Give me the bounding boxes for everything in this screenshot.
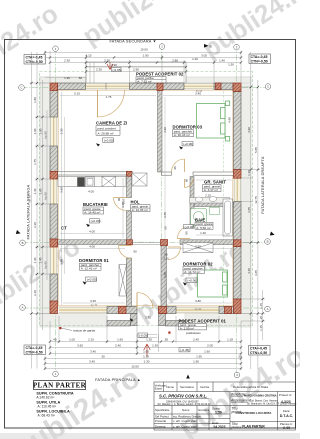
- svg-text:.60: .60: [78, 76, 83, 80]
- axis B horizontal: [23, 242, 271, 244]
- svg-text:D.T.A.C.: D.T.A.C.: [280, 414, 294, 418]
- wall V5 dormitor01/hol: [127, 258, 132, 307]
- svg-text:2.88: 2.88: [172, 58, 178, 62]
- svg-text:3.60: 3.60: [77, 343, 83, 347]
- svg-text:CTN=-0,50: CTN=-0,50: [251, 59, 268, 63]
- col interior H3 axis2: [161, 240, 168, 246]
- svg-text:2.50: 2.50: [133, 67, 139, 71]
- label bucatarie: [83, 202, 108, 223]
- window right: gr sanit: [234, 178, 242, 202]
- svg-text:pard. parchet: pard. parchet: [98, 127, 116, 131]
- svg-text:Expert: Expert: [155, 388, 163, 391]
- door dormitor 02: [168, 247, 181, 260]
- top wall segment B: [130, 83, 185, 90]
- svg-text:PLAN PARTER: PLAN PARTER: [33, 382, 87, 390]
- svg-text:trotuar de garda: trotuar de garda: [73, 329, 95, 333]
- svg-text:2.90: 2.90: [111, 63, 117, 67]
- extension horizontals: [30, 82, 51, 84]
- col right wall mid2: [234, 240, 242, 247]
- bottom wall seg 3: [219, 307, 234, 314]
- hall wardrobe: [132, 173, 147, 186]
- svg-text:C: C: [20, 86, 22, 90]
- label podest acoperit 01: [179, 319, 227, 335]
- svg-text:Semnatura: Semnatura: [180, 385, 194, 389]
- svg-text:4.00: 4.00: [88, 190, 94, 194]
- svg-text:4.15: 4.15: [86, 54, 92, 58]
- label baie: [195, 217, 213, 230]
- wall camera/bucatarie H1 thin partition: [58, 172, 127, 175]
- svg-text:plansa:: plansa:: [231, 426, 242, 430]
- col top mid-right: [216, 83, 222, 90]
- svg-text:12.75: 12.75: [254, 196, 258, 204]
- svg-text:3.48: 3.48: [59, 259, 63, 265]
- roof ridge dashed line: [223, 83, 225, 313]
- extension verticals: [49, 51, 51, 84]
- svg-text:Jud. Brasov, Com. Harman,: Jud. Brasov, Com. Harman,: [250, 400, 279, 403]
- svg-text:3.65: 3.65: [247, 207, 251, 213]
- svg-text:hp 90: hp 90: [44, 261, 48, 269]
- svg-text:4.90: 4.90: [163, 127, 167, 133]
- left wall seg 3: [50, 204, 58, 239]
- svg-text:1:50: 1:50: [215, 411, 222, 415]
- svg-text:4.90: 4.90: [228, 117, 232, 123]
- svg-text:3.65: 3.65: [163, 212, 167, 218]
- bottom grey scan strip: [0, 433, 300, 439]
- door main entrance french (top): [98, 90, 125, 117]
- window left: bucatarie: [50, 179, 58, 204]
- svg-text:10.50: 10.50: [131, 364, 139, 368]
- level -0.45 box bottom: [179, 348, 190, 352]
- svg-text:1.90: 1.90: [193, 359, 199, 363]
- door baie: [178, 226, 191, 239]
- svg-text:1.30: 1.30: [200, 231, 206, 235]
- svg-text:hp 90: hp 90: [195, 307, 202, 311]
- col left wall mid1: [50, 171, 58, 179]
- horizontal row lines: [154, 391, 296, 393]
- window left: camera de zi: [50, 117, 58, 146]
- svg-text:90: 90: [117, 198, 121, 202]
- cta box bottom-right: [249, 346, 271, 356]
- svg-text:CTN=-0,50: CTN=-0,50: [26, 60, 43, 64]
- wall V2 camera/dormitor03: [158, 90, 163, 173]
- kitchen sink unit: [86, 177, 95, 187]
- col left wall mid2: [50, 239, 58, 247]
- door bucatarie: [114, 198, 127, 211]
- svg-text:2.10: 2.10: [122, 198, 126, 204]
- svg-text:4.00: 4.00: [89, 230, 95, 234]
- svg-text:Sef Proiect: Sef Proiect: [155, 414, 169, 418]
- level cursor arrows: [83, 143, 187, 322]
- svg-text:1.90: 1.90: [33, 128, 37, 134]
- svg-text:2.10: 2.10: [163, 257, 169, 261]
- vertical column lines header: [163, 382, 165, 392]
- svg-text:(+0.00): (+0.00): [183, 142, 193, 146]
- svg-text:A: 3.47 m²: A: 3.47 m²: [204, 188, 218, 192]
- axis 2 vertical: [161, 44, 163, 250]
- dormitor03 bed green: [197, 101, 230, 141]
- porch side walls (hatched): [131, 314, 138, 326]
- window bottom: dormitor 01: [59, 307, 107, 314]
- wall V1 lower: [127, 211, 132, 240]
- vertical column lines lower: [171, 406, 173, 431]
- trotuar de garda leader: [59, 327, 61, 329]
- cta box bottom-left: [24, 345, 46, 355]
- label gr sanit: [203, 180, 227, 193]
- svg-text:3.65: 3.65: [254, 270, 258, 276]
- svg-text:A: 12.43 m²: A: 12.43 m²: [81, 267, 97, 271]
- wall H3 right part: [180, 240, 234, 245]
- svg-text:3.55: 3.55: [195, 245, 201, 249]
- svg-text:1.75: 1.75: [33, 159, 37, 165]
- left wall seg 1: [50, 90, 58, 118]
- svg-text:1.90: 1.90: [143, 54, 149, 58]
- svg-text:A: 14.40 m²: A: 14.40 m²: [84, 211, 100, 215]
- svg-text:A: A: [267, 307, 269, 311]
- axis A horizontal: [23, 307, 271, 309]
- svg-text:A: 5.50 m²: A: 5.50 m²: [196, 226, 210, 230]
- wall dormitor03 bottom H2 thin partition segs: [162, 172, 172, 175]
- svg-text:c. arh. Cuprin Vasil: c. arh. Cuprin Vasil: [173, 419, 197, 423]
- svg-text:CT: CT: [61, 226, 67, 231]
- svg-text:hp 90: hp 90: [44, 192, 48, 200]
- door gr sanit: [185, 179, 194, 188]
- svg-text:90: 90: [173, 166, 177, 170]
- svg-text:2.45: 2.45: [193, 337, 199, 341]
- svg-text:10.50: 10.50: [140, 48, 148, 52]
- svg-text:3.60: 3.60: [59, 187, 63, 193]
- svg-text:1.80: 1.80: [33, 97, 37, 103]
- col bottom wall 2: [159, 307, 167, 314]
- axis 3 vertical: [236, 44, 238, 375]
- col top-right corner: [233, 83, 241, 92]
- svg-text:ing. Raddescu Dragos: ing. Raddescu Dragos: [173, 414, 201, 418]
- svg-text:.20: .20: [259, 316, 263, 321]
- col top-left corner: [50, 83, 58, 91]
- svg-text:1.40: 1.40: [219, 58, 225, 62]
- entrance arrow top porch: [107, 62, 113, 70]
- window left: dormitor 01: [50, 247, 58, 274]
- svg-text:A:140.62 m²: A:140.62 m²: [36, 395, 55, 399]
- window top: dormitor 03: [184, 83, 214, 90]
- svg-text:3.30: 3.30: [59, 128, 63, 134]
- bottom wall seg 1: [107, 307, 137, 314]
- svg-text:1.15: 1.15: [259, 325, 263, 331]
- svg-text:S.C. PROFIV CON S.R.L.: S.C. PROFIV CON S.R.L.: [159, 394, 207, 399]
- svg-text:1.75: 1.75: [106, 95, 112, 99]
- svg-text:1.40: 1.40: [33, 257, 37, 263]
- door leaf dimension texts: [88, 166, 188, 319]
- svg-text:1.30: 1.30: [143, 354, 149, 358]
- label hol: [131, 199, 195, 229]
- left wall seg 4: [50, 274, 58, 303]
- door dormitor 03: [172, 159, 185, 172]
- svg-text:A: 29.88 m²: A: 29.88 m²: [98, 131, 114, 135]
- svg-text:c. arh. Cuprin Vasil: c. arh. Cuprin Vasil: [173, 424, 197, 428]
- svg-text:30: 30: [101, 354, 105, 358]
- svg-text:A-00: A-00: [283, 426, 290, 430]
- axis 1 vertical: [55, 46, 57, 374]
- svg-text:3.45: 3.45: [90, 299, 96, 303]
- svg-text:1.30: 1.30: [247, 170, 251, 176]
- svg-text:80: 80: [185, 231, 189, 235]
- svg-text:B: B: [210, 45, 212, 49]
- svg-text:B: B: [22, 241, 24, 245]
- label dormitor 03: [173, 125, 203, 147]
- svg-text:Semnatura: Semnatura: [198, 409, 210, 412]
- svg-text:4.00: 4.00: [89, 245, 95, 249]
- svg-text:4.40: 4.40: [247, 268, 251, 274]
- svg-text:.48: .48: [52, 337, 57, 341]
- svg-text:Nume: Nume: [182, 408, 190, 412]
- svg-text:1.40: 1.40: [33, 188, 37, 194]
- svg-text:MARCU SABINA CRISTINA: MARCU SABINA CRISTINA: [244, 394, 277, 398]
- svg-text:(+0.00): (+0.00): [91, 219, 101, 223]
- svg-text:2.30: 2.30: [96, 67, 102, 71]
- roof eave outline (green dashed): [40, 72, 253, 326]
- svg-text:FATADA LATERALA STANGA: FATADA LATERALA STANGA: [27, 184, 31, 239]
- svg-text:FATADA LATERALA DREAPTA: FATADA LATERALA DREAPTA: [261, 156, 265, 214]
- right wall seg 1: [234, 92, 242, 170]
- svg-text:3.48: 3.48: [163, 272, 167, 278]
- bottom wall seg 2: [159, 307, 177, 314]
- kitchen counter: [58, 176, 126, 186]
- podestean red marker: [168, 332, 170, 334]
- svg-text:2.40: 2.40: [115, 343, 121, 347]
- col bottom wall 3: [225, 307, 232, 314]
- svg-text:1.00: 1.00: [69, 337, 75, 341]
- svg-text:Faza:: Faza:: [283, 409, 290, 413]
- svg-text:Referat/Expertiza Nr./Data: Referat/Expertiza Nr./Data: [233, 385, 268, 389]
- svg-text:4.90: 4.90: [247, 127, 251, 133]
- axis lines (green dash-dot): [22, 44, 272, 375]
- svg-text:FATADA SECUNDARA ▼: FATADA SECUNDARA ▼: [109, 40, 156, 44]
- svg-text:80: 80: [185, 179, 189, 183]
- right wall seg 2: [234, 202, 242, 240]
- svg-text:Proiect nr:: Proiect nr:: [279, 393, 292, 397]
- podest acoperit 02 slab (top porch): [86, 62, 186, 83]
- svg-text:hp 90: hp 90: [44, 131, 48, 139]
- dormitor02 wardrobe: [183, 243, 213, 253]
- col top axis2: [157, 83, 163, 91]
- svg-text:CAMERA DE ZI: CAMERA DE ZI: [96, 121, 127, 126]
- svg-text:Cerinta: Cerinta: [200, 385, 209, 389]
- svg-text:A: 110.45 m²: A: 110.45 m²: [38, 404, 58, 408]
- interior finish tan lines along exterior walls: [58, 90, 233, 306]
- wall V3 hol/baie upper: [190, 177, 194, 227]
- trotuar de garda pavement band around building: [40, 77, 251, 327]
- level box top porch: [112, 68, 122, 72]
- label dormitor 01: [79, 258, 109, 282]
- svg-text:A: 68.43 m²: A: 68.43 m²: [38, 414, 56, 418]
- svg-text:1.95: 1.95: [196, 354, 202, 358]
- svg-text:2.30: 2.30: [33, 222, 37, 228]
- svg-text:CTN=-0,50: CTN=-0,50: [250, 351, 267, 355]
- svg-text:(+0.00): (+0.00): [185, 225, 195, 229]
- svg-text:A: A: [22, 306, 24, 310]
- door top: camera de zi french door: [86, 83, 130, 90]
- door dormitor 01: [119, 246, 132, 259]
- gr sanit lavoar counter: [190, 197, 230, 204]
- baie washbasin: [210, 208, 220, 215]
- svg-text:B: B: [267, 240, 269, 244]
- svg-text:1.30: 1.30: [145, 316, 151, 320]
- svg-text:1.30: 1.30: [146, 337, 152, 341]
- svg-text:1.40: 1.40: [192, 57, 198, 61]
- svg-text:04.2023: 04.2023: [214, 425, 226, 429]
- svg-text:50: 50: [164, 226, 168, 230]
- svg-text:1.90: 1.90: [64, 76, 70, 80]
- svg-text:1.30: 1.30: [152, 343, 158, 347]
- svg-text:(-0.45): (-0.45): [180, 348, 189, 352]
- threshold lines across hol corridor: [132, 242, 161, 244]
- svg-text:2.10: 2.10: [33, 290, 37, 296]
- entrance access red arrow: [144, 344, 150, 357]
- svg-text:1.40: 1.40: [39, 257, 43, 263]
- svg-text:5.15: 5.15: [74, 92, 80, 96]
- svg-text:3.40: 3.40: [90, 349, 96, 353]
- svg-text:4-3/23: 4-3/23: [281, 400, 291, 404]
- door entrance bottom: [137, 293, 153, 309]
- svg-text:1.60: 1.60: [204, 349, 210, 353]
- svg-text:hp 70: hp 70: [91, 303, 98, 307]
- svg-text:90: 90: [133, 250, 137, 254]
- svg-text:CONSTRUIRE LOCUINTA: CONSTRUIRE LOCUINTA: [236, 411, 273, 415]
- svg-text:2.30: 2.30: [64, 58, 70, 62]
- cta box top-right: [249, 54, 271, 64]
- svg-text:A: 14.35 m²: A: 14.35 m²: [132, 208, 148, 212]
- top wall segment A: [58, 83, 86, 90]
- svg-text:20: 20: [238, 354, 242, 358]
- col interior H3 end: [127, 240, 133, 245]
- level -0.05 box porch: [138, 333, 148, 337]
- axis circles: [19, 44, 271, 378]
- cta box top-left: [24, 55, 46, 65]
- svg-text:12.75: 12.75: [28, 195, 32, 203]
- svg-text:5.85: 5.85: [254, 147, 258, 153]
- svg-text:Specificatie: Specificatie: [155, 408, 170, 412]
- svg-text:C: C: [267, 85, 269, 89]
- svg-text:FATADA PRINCIPALA ▲: FATADA PRINCIPALA ▲: [95, 378, 141, 382]
- left wall seg 2: [50, 146, 58, 171]
- kitchen hob X unit: [102, 176, 116, 186]
- svg-text:CTN=-0,50: CTN=-0,50: [26, 350, 43, 354]
- extension verticals: [44, 356, 46, 370]
- baie bathtub: [223, 199, 233, 236]
- svg-text:3.05: 3.05: [201, 54, 207, 58]
- wall H4 gr.sanit/baie: [194, 203, 234, 207]
- dormitor02 bed green: [198, 270, 228, 297]
- col right wall mid1: [234, 170, 242, 179]
- label podest acoperit 02: [136, 72, 184, 84]
- dormitor01 wardrobe: [119, 265, 127, 297]
- svg-text:3.80: 3.80: [195, 299, 201, 303]
- svg-text:.65: .65: [164, 337, 169, 341]
- svg-text:1.90: 1.90: [39, 128, 43, 134]
- wall V4 hol/dormitor02: [161, 245, 167, 307]
- svg-text:2.10: 2.10: [88, 337, 94, 341]
- dim ticks top: [44, 51, 242, 72]
- svg-text:1.18: 1.18: [227, 337, 233, 341]
- svg-text:Desenat: Desenat: [155, 424, 166, 428]
- svg-text:1.15: 1.15: [259, 303, 263, 309]
- svg-text:3.40: 3.40: [89, 359, 95, 363]
- facade direction markers: [204, 44, 209, 48]
- svg-text:2.05: 2.05: [207, 343, 213, 347]
- svg-text:1.90: 1.90: [39, 188, 43, 194]
- svg-text:1.50: 1.50: [228, 63, 234, 67]
- svg-text:podestean: podestean: [185, 331, 201, 335]
- axis C horizontal: [22, 87, 272, 89]
- top wall segment C: [214, 83, 233, 90]
- wall H3 bucatarie/dormitor01: [58, 240, 127, 245]
- wall V1 bucatarie/hol upper: [127, 176, 132, 198]
- svg-text:Amplasament:: Amplasament:: [230, 398, 251, 402]
- col bottom-right corner: [234, 299, 242, 314]
- col interior H1 end: [127, 171, 133, 176]
- window bottom: dormitor 02: [176, 307, 219, 314]
- svg-text:1.60: 1.60: [143, 349, 149, 353]
- col bottom wall 1: [119, 307, 127, 314]
- svg-text:A: 7.92 m²: A: 7.92 m²: [137, 80, 151, 84]
- kitchen stove: [78, 178, 85, 187]
- svg-text:1.30: 1.30: [144, 359, 150, 363]
- svg-text:PLAN PARTER: PLAN PARTER: [242, 424, 265, 428]
- svg-text:hp 90: hp 90: [196, 89, 203, 93]
- dim texts top: [64, 48, 234, 80]
- svg-text:(+0.00): (+0.00): [87, 278, 97, 282]
- baie shower cabin: [191, 209, 207, 225]
- svg-text:A: 16.43 m²: A: 16.43 m²: [174, 133, 190, 137]
- svg-text:90: 90: [164, 253, 168, 257]
- podest acoperit 01 (bottom porch) walkway: [137, 326, 159, 353]
- svg-text:(+0.00): (+0.00): [104, 138, 114, 142]
- svg-text:A: 14.72 m²: A: 14.72 m²: [184, 270, 200, 274]
- svg-text:(+0.00): (+0.00): [187, 279, 197, 283]
- right wall seg 3: [234, 247, 242, 299]
- label dormitor 02: [183, 261, 213, 282]
- svg-text:2.90: 2.90: [104, 58, 110, 62]
- svg-text:Proiectat: Proiectat: [155, 419, 166, 423]
- col bottom-left corner: [50, 301, 58, 314]
- label camera de zi: [96, 121, 127, 143]
- svg-text:Str. Malului nr. 4, Brasov, te: Str. Malului nr. 4, Brasov, telefon: 072…: [158, 403, 212, 406]
- svg-text:Nume: Nume: [167, 385, 175, 389]
- svg-text:1.60: 1.60: [117, 337, 123, 341]
- svg-text:2.25: 2.25: [205, 194, 211, 198]
